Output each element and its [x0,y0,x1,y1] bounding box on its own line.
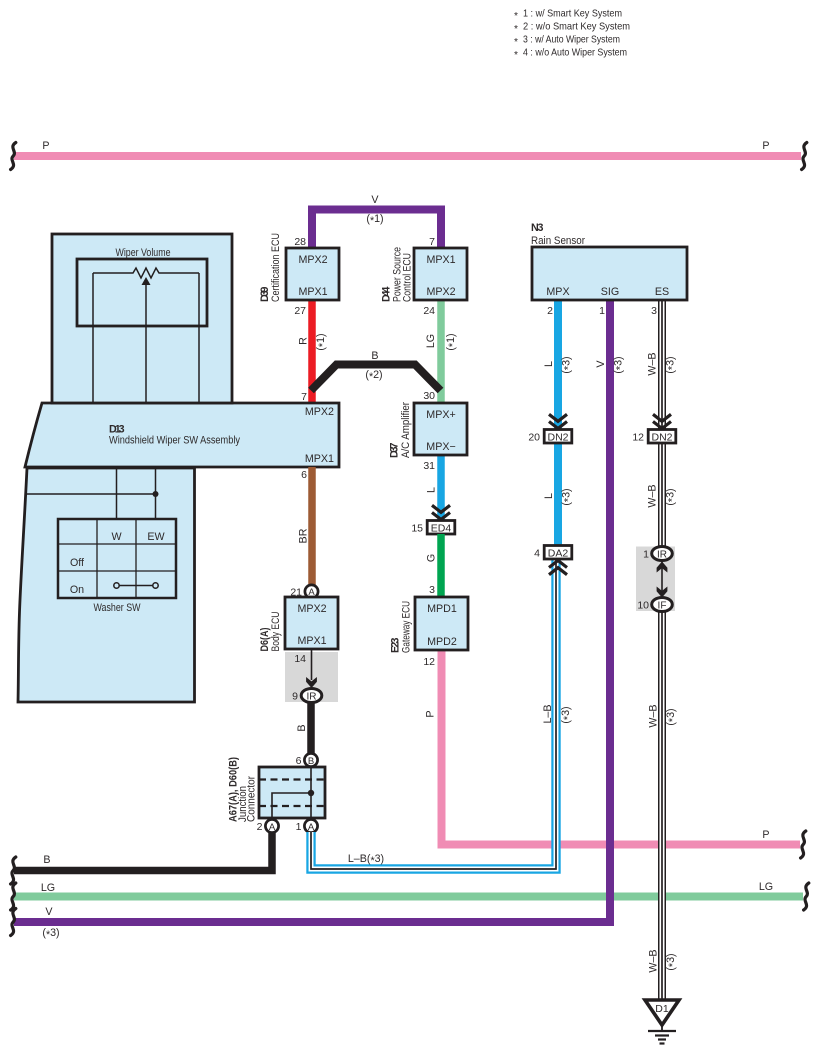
wire L blue D37 pin31 to ED4 [437,455,445,521]
connector circle A pin 21 [305,585,318,598]
thin link between IR and IF [661,560,663,598]
connector ED4 box [427,521,455,535]
connector arrow up toward IR [657,562,668,573]
connector DN2 box pin 12 [648,430,676,444]
connector DA2 box pin 4 [544,546,572,560]
connector DN2 box pin 20 [544,430,572,444]
svg-text:1: 1 [599,305,605,317]
junction dot on EW column [153,491,159,497]
ECU D44 Power Source Control ECU [414,248,467,300]
ECU D6(A) Body ECU [285,597,338,649]
wiper volume inner box [77,259,207,326]
svg-text:P: P [42,140,49,152]
switch assembly D13 band [25,403,339,467]
dashed bus line lower [259,805,325,807]
svg-text:(*3): (*3) [560,706,574,723]
svg-text:V: V [45,906,53,918]
svg-text:7: 7 [429,236,435,248]
wire washer EW column up [155,468,157,519]
washer switch table [58,519,176,598]
break symbol right of LG bus [804,883,809,910]
svg-text:P: P [762,829,769,841]
svg-text:28: 28 [294,236,306,248]
svg-text:MPX2: MPX2 [298,254,327,266]
svg-text:9: 9 [292,691,298,703]
svg-text:24: 24 [423,305,435,317]
wire V purple link D39 pin28 to D44 pin7 [312,210,441,251]
ground D1 triangle [645,1000,679,1025]
washer switch contact right [153,583,158,588]
svg-text:10: 10 [637,600,649,612]
dashed bus line upper [259,778,325,780]
break symbol left of top P bus [11,143,16,170]
wire P pink E23 pin12 down to right bus [442,650,801,845]
svg-text:A: A [269,822,276,833]
internal junction dot [308,790,314,796]
connector oval IF pin 10 [652,598,673,612]
svg-text:V: V [595,360,607,368]
washer switch contact left [114,583,119,588]
svg-text:DN2: DN2 [547,432,568,444]
svg-text:MPX1: MPX1 [305,453,334,465]
svg-text:MPD1: MPD1 [427,603,457,615]
wire B thick black IR to junction B pin6 [307,702,315,754]
wire P bus top (pink) [14,152,801,160]
svg-text:14: 14 [294,653,306,665]
svg-text:(*1): (*1) [445,333,459,350]
svg-text:D37: D37 [389,442,401,458]
wire BR brown D13 pin6 to D6(A) pin21 [308,467,316,586]
svg-text:B: B [296,724,308,731]
svg-text:LG: LG [41,882,55,894]
svg-text:W–B: W–B [646,484,658,507]
svg-text:31: 31 [423,460,435,472]
svg-text:On: On [70,584,84,596]
connector arrow into IR [306,677,317,688]
ECU D39 Certification ECU [286,248,339,300]
svg-text:MPX2: MPX2 [305,406,334,418]
svg-text:BR: BR [297,528,309,543]
wire L-B blue/black junction pin1 to DA2 [311,559,556,869]
wire from pot left end down [92,273,94,403]
svg-text:4 : w/o Auto Wiper System: 4 : w/o Auto Wiper System [523,48,627,59]
svg-text:L: L [543,493,555,499]
svg-text:P: P [762,140,769,152]
ECU E23 Gateway ECU [415,597,468,650]
connector arrow down toward IF [657,587,668,598]
wire pin14 thin black [311,649,313,680]
svg-text:R: R [297,337,309,345]
svg-text:6: 6 [296,755,302,767]
svg-text:(*3): (*3) [612,356,626,373]
connector arrow up into DA2 [549,561,567,575]
connector circle A pin 1 [304,819,317,832]
shield grey box around IR IF [636,547,675,612]
svg-text:MPX1: MPX1 [298,286,327,298]
connector arrow into ED4 [432,505,450,519]
svg-text:(*3): (*3) [664,356,678,373]
svg-text:2: 2 [547,305,553,317]
svg-text:12: 12 [423,656,435,668]
svg-text:A: A [308,822,315,833]
svg-text:6: 6 [301,469,307,481]
ground stem [661,1025,663,1031]
wire G green ED4 to E23 pin3 [437,534,445,597]
connector circle B pin 6 [304,753,317,766]
connector arrow into DN2 20 [549,414,567,428]
svg-text:Control ECU: Control ECU [401,253,413,302]
svg-text:L: L [543,361,555,367]
svg-text:1: 1 [643,549,649,561]
wire LG bus bottom full width [14,893,803,901]
connector circle A pin 2 [265,819,278,832]
connector oval IR pin 9 [301,689,322,703]
svg-text:W–B: W–B [646,352,658,375]
svg-text:MPX2: MPX2 [426,286,455,298]
connector oval IR pin 1 [652,547,673,561]
wire washer W column up [116,468,118,519]
break symbol left of V bus [11,909,16,936]
svg-text:27: 27 [294,305,306,317]
svg-text:30: 30 [423,390,435,402]
svg-text:1: 1 [296,821,302,833]
svg-text:15: 15 [411,523,423,535]
svg-text:MPX+: MPX+ [426,409,455,421]
ground bar 3 [658,1038,666,1040]
washer switch contact line [118,585,153,587]
junction connector A67(A) D60(B) box [259,767,325,818]
svg-text:V: V [371,194,379,206]
wire R red D39 pin27 to D13 pin7 [308,300,316,403]
svg-text:Off: Off [70,557,84,569]
svg-text:MPX1: MPX1 [297,635,326,647]
svg-text:ED4: ED4 [431,523,452,535]
svg-text:(*3): (*3) [665,953,679,970]
svg-text:MPX−: MPX− [426,441,455,453]
svg-text:EW: EW [147,531,165,543]
wire L blue N3 MPX pin2 down to DN2 and DA2 [554,300,562,546]
wiper volume outer box [52,234,232,403]
svg-text:(*1): (*1) [366,213,383,227]
svg-text:DA2: DA2 [548,548,569,560]
svg-text:L–B(*3): L–B(*3) [348,853,384,867]
svg-text:4: 4 [534,548,540,560]
wire LG light-green D44 pin24 to D37 pin30 [437,300,445,403]
svg-text:3: 3 [429,584,435,596]
svg-text:*: * [514,24,518,35]
wire B (*2) black jumper between R and LG wires [311,365,441,391]
svg-text:W–B: W–B [647,949,659,972]
svg-text:Certification ECU: Certification ECU [270,233,282,302]
wire V purple N3 SIG pin1 down to left bus [14,300,610,922]
svg-text:12: 12 [632,432,644,444]
svg-text:(*3): (*3) [560,356,574,373]
svg-text:MPX1: MPX1 [426,254,455,266]
svg-text:W: W [111,531,122,543]
svg-text:IR: IR [307,692,317,703]
svg-text:2: 2 [257,821,263,833]
ground bar 1 [648,1030,676,1032]
svg-text:20: 20 [528,432,540,444]
internal wire vertical pin6 to pin1 [310,767,312,818]
svg-text:7: 7 [301,391,307,403]
break symbol right of top P bus [802,143,807,170]
svg-text:B: B [371,350,378,362]
internal branch wire to pin2 [272,793,311,818]
svg-text:*: * [514,50,518,61]
svg-text:SIG: SIG [601,286,619,298]
break symbol left of B bus [11,857,16,884]
connector arrow into DN2 12 [653,414,671,428]
svg-text:LG: LG [425,334,437,348]
wire from wiper arm down [145,284,147,403]
svg-text:L–B: L–B [542,704,554,723]
svg-text:MPX2: MPX2 [297,603,326,615]
sensor N3 Rain Sensor [532,247,687,300]
svg-text:L: L [425,487,437,493]
wire from pot right end down [198,273,200,403]
svg-text:Washer SW: Washer SW [94,602,142,614]
lower switch panel of D13 [18,468,195,702]
svg-text:Gateway ECU: Gateway ECU [400,601,412,653]
break symbol right of P bus bottom [801,831,806,858]
svg-text:LG: LG [759,881,773,893]
svg-text:MPD2: MPD2 [427,636,457,648]
ground bar 2 [655,1034,669,1036]
svg-text:DN2: DN2 [651,432,672,444]
svg-text:3: 3 [651,305,657,317]
wire horizontal into EW column [26,493,156,495]
svg-text:B: B [43,854,50,866]
svg-text:P: P [424,710,436,717]
wire B thick black pin2 to left bus [14,832,272,871]
shield grey box below D6(A) [285,652,338,702]
svg-text:Wiper Volume: Wiper Volume [116,247,171,259]
svg-text:*: * [514,37,518,48]
svg-text:B: B [308,756,314,767]
svg-text:IF: IF [658,601,667,612]
svg-text:N3: N3 [531,222,544,234]
svg-text:Connector: Connector [245,776,257,822]
svg-text:G: G [425,554,437,562]
svg-text:*: * [514,11,518,22]
svg-text:(*3): (*3) [664,488,678,505]
potentiometer track with zigzag [93,268,199,278]
ground bar 4 [660,1042,665,1044]
svg-text:3 : w/ Auto Wiper System: 3 : w/ Auto Wiper System [523,35,620,46]
svg-text:(*1): (*1) [315,333,329,350]
svg-text:MPX: MPX [546,286,569,298]
wire W-B white/black N3 ES pin3 down to ground [658,300,666,1001]
potentiometer wiper arrow [142,277,151,285]
svg-text:1 : w/ Smart Key System: 1 : w/ Smart Key System [523,9,622,20]
svg-text:Windshield Wiper SW Assembly: Windshield Wiper SW Assembly [109,434,241,446]
svg-text:(*3): (*3) [560,488,574,505]
svg-text:D1: D1 [655,1003,669,1015]
svg-text:2 : w/o Smart Key System: 2 : w/o Smart Key System [523,22,630,33]
svg-text:W–B: W–B [647,704,659,727]
svg-text:IR: IR [657,550,667,561]
svg-text:(*3): (*3) [665,708,679,725]
svg-text:A/C Amplifier: A/C Amplifier [400,402,412,458]
svg-text:ES: ES [655,286,669,298]
svg-text:(*3): (*3) [42,927,59,941]
svg-text:Body ECU: Body ECU [270,612,282,652]
svg-text:Rain Sensor: Rain Sensor [531,235,585,247]
svg-text:(*2): (*2) [365,369,382,383]
break symbol left of LG bus [11,883,16,910]
ECU D37 A/C Amplifier [414,403,467,455]
